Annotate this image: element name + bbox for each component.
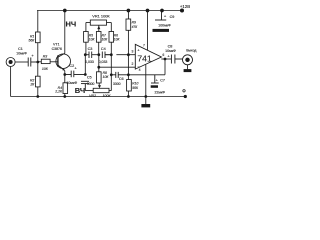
node +12V terminal (180, 9, 183, 12)
pin 7 wire (147, 11, 149, 51)
capacitor C1 (28, 58, 38, 67)
svg-text:10К: 10К (89, 38, 96, 42)
capacitor C8 (171, 55, 182, 64)
wire bus2 pin2 row (99, 55, 136, 67)
resistor R2 (36, 62, 41, 97)
wire output (161, 58, 171, 60)
svg-text:0,033: 0,033 (99, 60, 108, 64)
resistor R10 (127, 75, 132, 97)
svg-text:741: 741 (137, 53, 152, 63)
resistor R4 (63, 75, 68, 97)
wire divider vertical (127, 55, 129, 75)
node bus1 R7 (97, 53, 100, 56)
svg-text:2,2К: 2,2К (54, 90, 63, 94)
op-amp U1 741 (135, 44, 161, 69)
svg-text:+12В: +12В (180, 4, 190, 9)
node output (164, 58, 167, 61)
wire ground rail (11, 96, 186, 98)
node ground terminal (184, 95, 187, 98)
wire top rail (37, 12, 39, 32)
svg-text:2К: 2К (29, 83, 35, 87)
node top rail C9 (161, 9, 164, 12)
svg-text:С3876: С3876 (52, 47, 62, 51)
svg-text:22мкФ: 22мкФ (155, 91, 166, 95)
resistor R9 47K (126, 11, 131, 55)
wire VR2 right up through bus2 (110, 55, 112, 75)
svg-text:R9: R9 (132, 21, 136, 25)
svg-text:10К: 10К (114, 38, 121, 42)
svg-text:3300: 3300 (87, 82, 95, 86)
svg-text:R10: R10 (132, 82, 138, 86)
svg-text:3300: 3300 (113, 82, 121, 86)
svg-text:56К: 56К (132, 86, 139, 90)
svg-text:Выход: Выход (186, 48, 196, 52)
svg-text:VR2: VR2 (89, 94, 96, 98)
svg-text:2: 2 (131, 62, 133, 66)
svg-text:C8: C8 (168, 44, 173, 48)
svg-text:+: + (164, 14, 167, 19)
node ground R2 (36, 95, 39, 98)
node top rail pin7 (146, 9, 149, 12)
svg-text:0,033: 0,033 (85, 60, 94, 64)
svg-text:C3: C3 (88, 47, 93, 51)
resistor R8 (97, 67, 102, 83)
node ground pin4 (144, 95, 147, 98)
node bus1 R5 (84, 53, 87, 56)
node bus1 divider (127, 53, 130, 56)
node feedback (127, 73, 130, 76)
ground C9 (153, 29, 170, 32)
capacitor C3 (89, 52, 92, 59)
potentiometer VR1 (86, 20, 111, 32)
capacitor C6 (111, 72, 128, 78)
svg-text:10мкФ: 10мкФ (165, 49, 176, 53)
capacitor C9 (155, 11, 166, 21)
svg-text:10мкФ: 10мкФ (16, 52, 27, 56)
capacitor C7 (151, 75, 159, 83)
svg-text:C4: C4 (101, 47, 106, 51)
svg-text:R3: R3 (43, 55, 48, 59)
svg-text:С7: С7 (160, 78, 165, 82)
svg-text:НЧ: НЧ (66, 19, 77, 28)
svg-text:C1: C1 (18, 47, 23, 51)
svg-text:100К: 100К (102, 94, 111, 98)
svg-text:47К: 47К (132, 25, 139, 29)
svg-text:C6: C6 (119, 77, 124, 81)
svg-text:6: 6 (163, 53, 165, 57)
svg-text:56К: 56К (29, 39, 36, 43)
svg-text:10мкФ: 10мкФ (66, 81, 77, 85)
resistor R5 (84, 32, 89, 55)
node bus2 R8 (97, 66, 100, 69)
svg-text:ВЧ: ВЧ (75, 86, 85, 95)
svg-text:10К: 10К (103, 75, 110, 79)
svg-text:R8: R8 (103, 71, 107, 75)
capacitor C2 (65, 71, 86, 78)
svg-text:+: + (167, 53, 170, 58)
svg-text:100мкФ: 100мкФ (158, 24, 171, 28)
svg-text:С9: С9 (170, 15, 175, 19)
node C1/R1/R2 (36, 61, 39, 64)
ground output connector (184, 69, 192, 72)
svg-text:10К: 10К (42, 67, 49, 71)
svg-text:VR1 100К: VR1 100К (92, 13, 110, 18)
wire feedback row (128, 59, 165, 75)
node top rail VT1 (63, 9, 66, 12)
resistor R1 (36, 32, 41, 62)
wire bus1 pin3 row (85, 55, 135, 75)
svg-text:10К: 10К (102, 38, 109, 42)
resistor R6 (109, 32, 114, 55)
potentiometer VR2 (85, 75, 111, 93)
svg-text:+: + (156, 77, 159, 82)
node C2 out (84, 73, 87, 76)
node ground R10 (127, 95, 130, 98)
transistor VT1 (56, 11, 71, 75)
node top rail R9 (127, 9, 130, 12)
svg-text:+: + (31, 53, 34, 58)
ground chassis (145, 97, 147, 105)
capacitor C4 (102, 52, 111, 59)
svg-text:3: 3 (131, 49, 133, 53)
resistor R7 (96, 32, 101, 55)
svg-text:C5: C5 (87, 76, 92, 80)
output connector (183, 55, 193, 69)
svg-text:4: 4 (139, 68, 141, 72)
node ground R4 (63, 95, 66, 98)
resistor R3 (38, 59, 58, 63)
svg-text:7: 7 (143, 43, 145, 47)
node bus1 R6 (110, 53, 113, 56)
input connector (6, 58, 28, 97)
svg-text:+: + (74, 66, 77, 71)
capacitor C5 (81, 81, 89, 90)
pin 4 wire (145, 65, 147, 97)
node emitter (63, 73, 66, 76)
node C6 row left (110, 73, 113, 76)
